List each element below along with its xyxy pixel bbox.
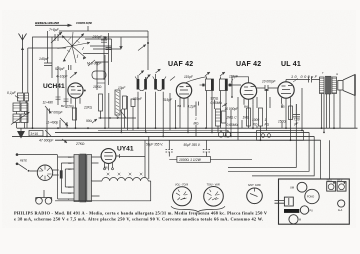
volume pot 2M [216, 109, 221, 126]
tuning arrow [11, 112, 30, 125]
svg-text:10 000pF: 10 000pF [262, 80, 277, 84]
knob K3 [247, 188, 263, 204]
svg-text:37 000pF: 37 000pF [49, 111, 64, 115]
svg-text:935Ω: 935Ω [211, 97, 219, 101]
svg-text:PU: PU [310, 210, 314, 213]
band switch S1 [58, 32, 91, 63]
svg-text:115pF: 115pF [184, 75, 194, 79]
capacitor 4,2pF [188, 105, 197, 109]
svg-text:7+8pF: 7+8pF [49, 28, 60, 32]
oscillator coil L3 [92, 71, 106, 79]
electrolytic C50a [146, 142, 163, 146]
svg-text:3+10: 3+10 [31, 132, 39, 136]
power transformer T6 [74, 155, 79, 202]
svg-text:UCH41: UCH41 [43, 83, 65, 90]
svg-text:315pF: 315pF [163, 98, 173, 102]
wire [28, 48, 66, 93]
svg-text:11÷490p: 11÷490p [46, 121, 58, 125]
resistor 100K [247, 108, 251, 126]
IF transformer T3 [206, 79, 214, 91]
resistor 935ohm [211, 97, 219, 101]
padder 3+10 [29, 131, 43, 137]
svg-text:PHILIPS RADIO - Mod. BI 491 A: PHILIPS RADIO - Mod. BI 491 A - Media, c… [14, 211, 268, 216]
svg-text:4,2pF: 4,2pF [188, 105, 197, 109]
svg-text:KΩ: KΩ [253, 123, 258, 127]
tube UAF42 U3 [236, 61, 261, 68]
long vertical drops [170, 88, 302, 140]
switch contacts [218, 132, 223, 137]
svg-text:KΩ: KΩ [265, 123, 270, 127]
caption line 1 [14, 211, 268, 222]
mains terminals [16, 153, 19, 156]
resistor R6 [131, 99, 135, 107]
socket M [289, 215, 298, 224]
trimmer 11-480 [43, 101, 54, 105]
knob K1 [173, 187, 192, 206]
resistor 1M b [243, 116, 250, 120]
wire [99, 93, 137, 132]
title arrow [35, 24, 70, 26]
svg-text:50μF 355 V.: 50μF 355 V. [184, 143, 201, 147]
capacitor 37000pF [49, 111, 64, 115]
svg-text:27KΩ: 27KΩ [75, 142, 85, 146]
svg-text:7,00: 7,00 [294, 118, 300, 122]
svg-text:210pF: 210pF [92, 35, 104, 39]
svg-text:E-A: E-A [338, 209, 342, 212]
tube pins [71, 98, 80, 107]
svg-text:50μF 355 V.: 50μF 355 V. [146, 142, 163, 146]
voltage plate 125 [337, 182, 346, 192]
capacitor on switch a [101, 40, 107, 42]
svg-text:BANDE ALLARG. 25 M: BANDE ALLARG. 25 M [35, 21, 60, 25]
tone switch box [257, 131, 304, 141]
svg-text:11÷480: 11÷480 [43, 101, 54, 105]
svg-text:0,65MΩ: 0,65MΩ [227, 123, 239, 127]
svg-text:RETE: RETE [20, 159, 27, 163]
svg-text:M: M [299, 219, 301, 222]
tube UL41 U4 [281, 61, 301, 68]
svg-text:UAF 42: UAF 42 [236, 61, 261, 68]
brace [171, 206, 225, 212]
ground [20, 128, 22, 131]
resistor 27K [75, 142, 85, 146]
capacitor 115pF [184, 75, 194, 79]
svg-text:220 V: 220 V [327, 180, 333, 182]
svg-text:10KΩ: 10KΩ [93, 85, 102, 89]
capacitor 47000pF [39, 139, 54, 143]
svg-text:VOL - TONI: VOL - TONI [175, 183, 188, 186]
middle vertical drops left [16, 83, 97, 136]
socket PU [300, 206, 308, 214]
voltage plate 220 [327, 182, 336, 192]
svg-text:UM: UM [290, 186, 294, 190]
potentiometer P1 [115, 90, 120, 115]
bus rail 4 [55, 139, 321, 141]
coil pair A [18, 93, 24, 101]
capacitor 520pF [55, 67, 66, 71]
svg-text:RETE: RETE [285, 209, 292, 213]
speaker LS [338, 81, 343, 91]
IF transformer T2 [154, 79, 157, 90]
fuse [60, 170, 63, 178]
svg-text:B3: B3 [178, 104, 182, 108]
trimmer M 3-30pF [87, 62, 102, 66]
capacitor 7000pF [294, 118, 300, 127]
coil pair B [13, 103, 20, 112]
resistor R5 [123, 96, 127, 109]
svg-text:UAF 42: UAF 42 [168, 61, 193, 68]
svg-text:125 V: 125 V [337, 180, 343, 182]
capacitor 210pF [92, 35, 104, 39]
tube UCH41 [43, 83, 65, 90]
bus rail 3 [12, 135, 314, 137]
trimmer 13pF [118, 86, 126, 90]
capacitor 10000pF mid [225, 107, 240, 111]
trimmer 11-490p [46, 121, 58, 125]
capacitor 0,1uF [7, 91, 17, 95]
coil pair C [13, 114, 20, 123]
svg-text:CORTA 40,50: CORTA 40,50 [76, 21, 92, 25]
wire [17, 90, 27, 128]
resistor 1K [259, 108, 263, 126]
svg-text:B4: B4 [244, 105, 248, 109]
svg-text:22KΩ: 22KΩ [83, 106, 93, 110]
svg-text:47 000pF: 47 000pF [39, 139, 54, 143]
output transformer T5 [320, 77, 325, 94]
junction dots [32, 127, 335, 141]
svg-text:SINT. CMD: SINT. CMD [248, 184, 261, 187]
knob K2 [204, 187, 224, 207]
IF transformer T1 [137, 79, 140, 90]
svg-text:140pF: 140pF [39, 57, 50, 61]
capacitor 226p [66, 105, 74, 109]
right drop L3 [252, 136, 314, 176]
socket fono [305, 189, 319, 203]
resistor 22K [83, 106, 93, 110]
svg-text:UL 41: UL 41 [281, 61, 301, 68]
svg-text:2MΩ C: 2MΩ C [226, 116, 238, 120]
bus rail 1 [17, 127, 358, 129]
label plate [284, 209, 299, 213]
capacitor 10000pF coupling [262, 80, 277, 84]
resistor 150ohm [278, 120, 286, 124]
svg-text:13pF: 13pF [118, 86, 126, 90]
tube UY41 U5 [117, 146, 134, 153]
resistor 10K [93, 85, 102, 89]
svg-text:B5: B5 [281, 105, 285, 109]
svg-text:MΩ: MΩ [194, 122, 200, 126]
svg-text:UY41: UY41 [117, 146, 134, 153]
right drop L1 [228, 128, 296, 167]
wire top frame [33, 37, 149, 128]
svg-text:FONO: FONO [307, 196, 314, 199]
capacitor on switch b [106, 48, 112, 50]
svg-text:e 38 mA, schermo 250 V e 7,5 m: e 38 mA, schermo 250 V e 7,5 mA. Altre p… [14, 216, 263, 221]
socket antenna [297, 182, 307, 192]
primary taps comb [58, 155, 66, 199]
antenna A1 [19, 34, 27, 91]
switch frame wires [48, 26, 112, 128]
svg-text:1: 1 [195, 117, 197, 121]
dial lamps [36, 198, 43, 205]
svg-text:4÷10pF: 4÷10pF [56, 75, 68, 79]
resistor 1M [194, 117, 200, 126]
rear panel [279, 179, 350, 224]
right drop L2 [228, 132, 309, 171]
svg-text:520pF: 520pF [55, 67, 66, 71]
right drop L4 [320, 140, 322, 179]
mains plug [284, 197, 293, 206]
heater chain bumps [92, 178, 149, 182]
bus rail 2 [55, 131, 309, 133]
title band text [35, 21, 92, 25]
svg-text:B2: B2 [61, 104, 65, 108]
socket E [338, 200, 345, 207]
capacitor 10000pF output [291, 75, 318, 79]
svg-text:90Ω: 90Ω [86, 119, 93, 123]
capacitor on frame [92, 31, 148, 37]
trimmer 4-10pF [56, 75, 68, 79]
svg-text:0,1μF: 0,1μF [7, 91, 17, 95]
IF transformer T4 [219, 79, 227, 91]
svg-text:10 000pF: 10 000pF [225, 107, 240, 111]
mains switch [18, 164, 27, 170]
capacitor 140pF [39, 57, 50, 61]
resistor 90ohm [86, 119, 93, 123]
voltage selector [37, 165, 52, 180]
resistor 1000ohm box [177, 157, 211, 163]
svg-text:TONI - VAR: TONI - VAR [207, 183, 220, 186]
tube UAF42 U2 [168, 61, 193, 68]
svg-text:1000Ω 1 1/2W: 1000Ω 1 1/2W [179, 158, 202, 162]
svg-text:0,65MΩ: 0,65MΩ [211, 101, 223, 105]
right drop L5 [329, 140, 331, 179]
trimmer C1 7+8pF [49, 28, 60, 32]
electrolytic C50b [184, 143, 201, 147]
